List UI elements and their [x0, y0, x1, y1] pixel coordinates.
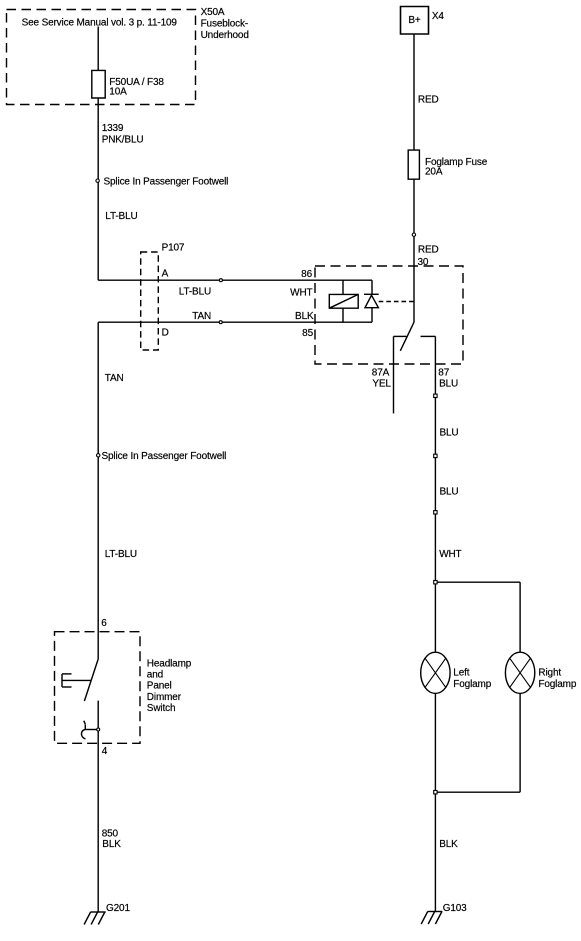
- svg-text:Switch: Switch: [147, 703, 176, 714]
- svg-text:86: 86: [301, 269, 312, 280]
- svg-text:10A: 10A: [109, 87, 127, 98]
- svg-text:PNK/BLU: PNK/BLU: [102, 135, 144, 146]
- svg-text:Dimmer: Dimmer: [147, 692, 182, 703]
- svg-text:RED: RED: [418, 95, 439, 106]
- svg-text:Left: Left: [453, 668, 469, 679]
- svg-text:1339: 1339: [102, 123, 124, 134]
- svg-text:D: D: [162, 328, 169, 339]
- svg-text:Panel: Panel: [147, 681, 172, 692]
- svg-text:Splice In Passenger Footwell: Splice In Passenger Footwell: [102, 451, 227, 462]
- svg-text:TAN: TAN: [192, 311, 211, 322]
- svg-text:RED: RED: [418, 245, 439, 256]
- svg-text:BLK: BLK: [295, 311, 314, 322]
- svg-text:G201: G201: [106, 903, 130, 914]
- svg-text:Fuseblock-: Fuseblock-: [201, 18, 248, 29]
- svg-text:BLU: BLU: [439, 379, 458, 390]
- svg-text:30: 30: [418, 257, 429, 268]
- svg-text:BLK: BLK: [102, 839, 121, 850]
- svg-text:WHT: WHT: [439, 549, 461, 560]
- svg-text:Splice In Passenger Footwell: Splice In Passenger Footwell: [104, 176, 229, 187]
- svg-text:20A: 20A: [425, 167, 443, 178]
- svg-text:A: A: [162, 269, 169, 280]
- svg-text:Underhood: Underhood: [201, 30, 249, 41]
- svg-text:85: 85: [302, 328, 313, 339]
- svg-text:Right: Right: [538, 668, 561, 679]
- svg-text:WHT: WHT: [290, 287, 312, 298]
- svg-text:Foglamp: Foglamp: [453, 679, 491, 690]
- svg-text:BLK: BLK: [439, 839, 458, 850]
- svg-text:LT-BLU: LT-BLU: [105, 549, 137, 560]
- svg-text:X50A: X50A: [201, 7, 225, 18]
- svg-text:BLU: BLU: [440, 487, 459, 498]
- svg-text:6: 6: [101, 618, 107, 629]
- svg-text:LT-BLU: LT-BLU: [179, 286, 211, 297]
- svg-text:TAN: TAN: [105, 373, 124, 384]
- svg-text:Headlamp: Headlamp: [147, 659, 192, 670]
- svg-text:and: and: [147, 670, 163, 681]
- svg-text:P107: P107: [162, 242, 185, 253]
- svg-text:G103: G103: [443, 903, 467, 914]
- svg-text:YEL: YEL: [372, 379, 391, 390]
- svg-text:87: 87: [438, 367, 449, 378]
- svg-text:Foglamp: Foglamp: [538, 679, 576, 690]
- svg-text:B+: B+: [408, 15, 421, 26]
- svg-text:87A: 87A: [372, 367, 390, 378]
- svg-text:BLU: BLU: [440, 428, 459, 439]
- svg-text:4: 4: [102, 746, 108, 757]
- svg-text:X4: X4: [432, 11, 445, 22]
- svg-text:LT-BLU: LT-BLU: [105, 211, 137, 222]
- svg-text:850: 850: [102, 829, 119, 840]
- svg-text:See Service Manual vol. 3 p. 1: See Service Manual vol. 3 p. 11-109: [22, 18, 178, 29]
